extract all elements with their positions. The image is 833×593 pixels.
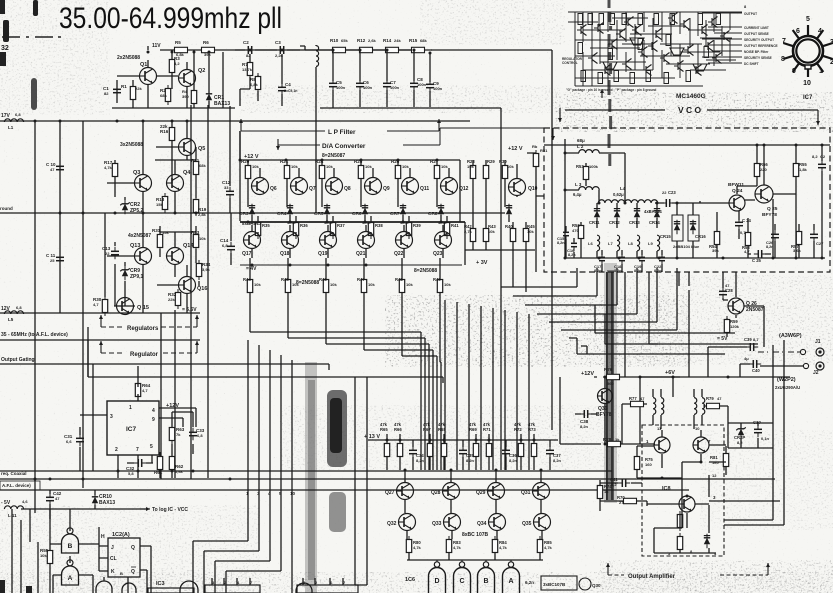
resistor R42: [470, 225, 475, 245]
svg-text:R16: R16: [160, 129, 169, 134]
transistor IC8a: [654, 437, 670, 453]
wire divider bus 471: [0, 470, 612, 472]
wire DA arrow right: [551, 128, 555, 140]
svg-text:8xBC 107B: 8xBC 107B: [462, 532, 489, 538]
svg-text:4,7k: 4,7k: [453, 545, 462, 550]
capacitor C11: [56, 253, 64, 265]
wire staircase varactor feed 4: [537, 268, 637, 314]
capacitor C33: [189, 428, 197, 440]
wire gate wiring: [50, 509, 99, 593]
svg-text:6,8: 6,8: [197, 433, 203, 438]
wire AFL line: [0, 489, 689, 491]
svg-text:Q34: Q34: [477, 521, 487, 527]
resistor R49: [437, 276, 442, 296]
wire column Q12: [437, 160, 449, 307]
capacitor C15: [563, 228, 569, 240]
resistor R81: [723, 450, 728, 470]
resistor R20: [245, 162, 250, 182]
svg-text:10k: 10k: [291, 164, 298, 169]
svg-text:Q18: Q18: [280, 251, 290, 257]
svg-text:BFY78: BFY78: [596, 412, 612, 418]
resistor R16: [169, 124, 174, 144]
svg-text:6,4μ: 6,4μ: [573, 192, 582, 197]
wire BAX13 bus: [240, 221, 465, 223]
transistor Q22: [396, 232, 413, 249]
resistor R68: [441, 440, 446, 460]
svg-text:35.00-64.999mhz pll: 35.00-64.999mhz pll: [59, 2, 282, 35]
svg-text:6,8: 6,8: [222, 243, 228, 248]
svg-text:B: B: [120, 571, 123, 576]
svg-text:Output Gating: Output Gating: [1, 357, 35, 363]
capacitor C26: [771, 230, 779, 242]
wire Q3/Q4/Q5 interconnect: [107, 121, 196, 213]
svg-text:8=2N5087: 8=2N5087: [322, 153, 345, 159]
resistor R75: [634, 453, 639, 473]
logic 3xBC107B box: [541, 576, 577, 590]
resistor R34: [196, 260, 201, 280]
svg-text:6,8k: 6,8k: [250, 82, 259, 87]
wire top coupling line: [235, 49, 432, 51]
wire divider feed 2: [204, 490, 259, 593]
svg-text:Output Amplifier: Output Amplifier: [628, 574, 676, 580]
resistor R65: [384, 440, 389, 460]
inductor T2b: [661, 398, 664, 415]
wire verticals from preamp: [161, 105, 208, 479]
capacitor C40: [749, 360, 761, 368]
resistor R55: [47, 547, 52, 567]
svg-text:L1: L1: [8, 125, 14, 130]
logic IC5 box: [297, 585, 358, 593]
resistor R69: [473, 440, 478, 460]
wire 17V rail: [0, 120, 470, 122]
capacitor C43: [754, 425, 762, 437]
svg-text:10k: 10k: [402, 164, 409, 169]
svg-text:R67: R67: [423, 427, 431, 432]
wire L4 to C23: [655, 201, 700, 203]
svg-text:NOISE BP. Filter: NOISE BP. Filter: [744, 50, 769, 54]
svg-text:10: 10: [803, 80, 811, 87]
wire DA output 2: [288, 307, 425, 470]
svg-text:= 6,5V: = 6,5V: [182, 307, 197, 313]
logic gate B: [478, 560, 495, 593]
resistor R48: [399, 276, 404, 296]
inductor L2: [579, 150, 599, 153]
svg-text:22k: 22k: [168, 297, 175, 302]
wire IC7 surroundings: [80, 364, 193, 478]
svg-text:8: 8: [781, 56, 785, 63]
transistor Q35: [534, 514, 551, 531]
node MC1460G pin labels: [562, 12, 778, 92]
capacitor C32: [134, 459, 146, 467]
resistor R25: [358, 162, 363, 182]
svg-text:C28: C28: [725, 288, 733, 293]
svg-text:C27: C27: [816, 241, 824, 246]
svg-text:1C2(A): 1C2(A): [112, 532, 130, 538]
resistor R33: [193, 231, 198, 251]
svg-text:BAX13: BAX13: [99, 500, 115, 506]
svg-text:25: 25: [50, 258, 55, 263]
inductor L9: [657, 235, 660, 251]
svg-text:C39: C39: [744, 337, 752, 342]
svg-text:82: 82: [104, 91, 109, 96]
wire Q26 interconnect: [723, 199, 773, 347]
svg-text:V C O: V C O: [678, 105, 702, 115]
zener CR9: [120, 266, 129, 280]
capacitor C12: [226, 187, 234, 199]
wire R78 to IC8: [621, 443, 655, 445]
svg-text:7k: 7k: [176, 432, 181, 437]
transistor Q8: [326, 178, 343, 195]
diode CR18: [704, 534, 710, 548]
svg-text:R51: R51: [540, 148, 548, 153]
svg-text:CL: CL: [110, 556, 117, 562]
svg-text:+12 V: +12 V: [508, 146, 523, 152]
wire DA output 6: [440, 307, 441, 470]
wire CR11 stubs: [596, 203, 598, 228]
wire R52/C15 stubs: [566, 222, 581, 258]
svg-text:R41: R41: [451, 223, 459, 228]
svg-text:CONTROL: CONTROL: [562, 61, 578, 65]
resistor R28: [470, 162, 475, 182]
transistor Q19: [320, 232, 337, 249]
svg-text:(W2P2): (W2P2): [777, 377, 796, 383]
logic gate A: [62, 560, 79, 585]
svg-text:H: H: [101, 534, 105, 540]
transistor Q32: [399, 514, 416, 531]
wire VCO to staircase: [679, 272, 689, 286]
svg-text:Q23: Q23: [433, 251, 443, 257]
svg-text:24k: 24k: [394, 38, 401, 43]
svg-text:+ 3V: + 3V: [476, 260, 488, 266]
wire: [195, 315, 199, 327]
resistor R27: [434, 162, 439, 182]
capacitor C10: [56, 162, 64, 174]
svg-text:1: 1: [819, 68, 823, 75]
svg-text:2xUG290A/U: 2xUG290A/U: [775, 385, 800, 390]
varactor diode CR7: [400, 204, 406, 218]
wire IC7 pin stubs: [98, 394, 196, 478]
transistor Q1: [140, 68, 157, 85]
wire staircase varactor feed 2: [513, 268, 597, 296]
svg-text:22k: 22k: [135, 86, 142, 91]
inductor T3a: [694, 398, 697, 415]
svg-text:4,7k: 4,7k: [104, 165, 113, 170]
resistor R54: [714, 228, 719, 248]
svg-text:3x2N5088: 3x2N5088: [120, 142, 143, 148]
svg-text:Q35: Q35: [522, 521, 532, 527]
svg-text:Q: Q: [131, 545, 135, 551]
svg-text:10k: 10k: [252, 164, 259, 169]
wire vertical bus x83: [82, 121, 84, 488]
resistor R58: [745, 229, 750, 249]
wire IC8 interconnect: [637, 430, 780, 553]
svg-text:390: 390: [182, 94, 189, 99]
wire divider bus 2: [456, 302, 458, 470]
transistor Q5: [179, 139, 196, 156]
inductor T3b: [702, 398, 705, 415]
transistor Q25: [755, 185, 773, 203]
resistor R1: [130, 83, 135, 103]
svg-text:Q5: Q5: [198, 146, 205, 152]
svg-text:4,7: 4,7: [93, 302, 99, 307]
svg-text:CR16: CR16: [695, 234, 706, 239]
transistor Q17: [244, 232, 261, 249]
svg-text:Q4: Q4: [183, 170, 191, 176]
connector IC7 socket dial: [783, 25, 832, 77]
svg-text:2,8k: 2,8k: [198, 212, 207, 217]
wire +12V divider bus: [368, 439, 558, 441]
wire divider bus 8: [528, 314, 530, 470]
svg-text:To log IC - VCC: To log IC - VCC: [152, 507, 188, 513]
wire DA frame: [230, 106, 465, 265]
resistor R14: [382, 47, 402, 52]
svg-text:CR5: CR5: [314, 211, 324, 217]
svg-text:B: B: [483, 578, 488, 585]
transistor Q28: [443, 483, 460, 500]
wire: [99, 341, 103, 353]
svg-text:MC1460G: MC1460G: [676, 93, 706, 100]
svg-text:8,2n: 8,2n: [766, 245, 774, 249]
svg-text:10k: 10k: [507, 164, 514, 169]
transistor Q21: [358, 232, 375, 249]
wire RC ladder bus: [300, 46, 552, 430]
svg-text:10k: 10k: [406, 282, 413, 287]
svg-text:0,62μ: 0,62μ: [613, 192, 624, 197]
wire -4V bus: [240, 264, 462, 266]
logic gate C: [454, 560, 471, 593]
wire divider stage Q28: [430, 434, 463, 560]
node LP Filter label: [241, 130, 439, 132]
inductor L5: [4, 311, 23, 314]
svg-text:R39: R39: [413, 223, 421, 228]
svg-text:8,2n: 8,2n: [553, 458, 562, 463]
svg-text:10k: 10k: [254, 282, 261, 287]
svg-text:L7: L7: [608, 241, 613, 246]
resistor R43: [483, 225, 488, 245]
svg-text:1C6: 1C6: [405, 577, 415, 583]
wire R28/R42 column: [465, 160, 535, 292]
svg-text:J2: J2: [813, 370, 819, 376]
svg-text:CR11: CR11: [589, 220, 600, 225]
wire VCO arrow right: [816, 110, 820, 125]
capacitor C23: [662, 199, 674, 207]
svg-text:4: 4: [818, 28, 822, 35]
svg-text:- 5V: - 5V: [1, 500, 11, 506]
wire 11V bus: [160, 49, 300, 51]
svg-text:10k: 10k: [40, 553, 47, 558]
svg-text:J1: J1: [815, 339, 821, 345]
svg-text:2xC5,1n: 2xC5,1n: [284, 89, 297, 93]
capacitor C7: [383, 79, 391, 91]
inductor L4: [598, 200, 657, 203]
resistor R70: [620, 498, 640, 503]
svg-text:3xBC107B: 3xBC107B: [543, 582, 566, 587]
svg-text:100n: 100n: [433, 86, 443, 91]
wire L7 stubs: [617, 250, 622, 272]
svg-text:10k: 10k: [368, 282, 375, 287]
wire regulator feed lines: [88, 340, 443, 383]
wire vertical bus x60: [59, 121, 61, 313]
svg-text:R37: R37: [337, 223, 345, 228]
wire VCO bias stubs: [717, 212, 814, 258]
wire Q24/Q25 interconnect: [700, 145, 822, 258]
svg-text:47: 47: [50, 167, 55, 172]
transistor Q14: [167, 248, 184, 265]
transistor Q18: [282, 232, 299, 249]
svg-text:+ 13 V: + 13 V: [364, 434, 380, 440]
resistor R39: [406, 219, 411, 239]
svg-text:CR15: CR15: [660, 234, 671, 239]
wire IC4 pins: [212, 578, 250, 585]
resistor R40: [510, 225, 515, 245]
svg-text:10: 10: [290, 491, 296, 496]
svg-text:+6V: +6V: [665, 370, 675, 376]
wire DA output 4: [364, 307, 433, 470]
transistor Q24: [729, 195, 745, 211]
wire column Q11: [398, 160, 410, 307]
svg-text:4,7k: 4,7k: [544, 545, 553, 550]
wire: [766, 563, 770, 575]
resistor R41: [444, 219, 449, 239]
svg-text:68k: 68k: [420, 38, 427, 43]
svg-text:BAX13: BAX13: [214, 101, 230, 107]
svg-text:17V: 17V: [1, 113, 11, 119]
varactor diode CR8: [438, 204, 444, 218]
capacitor C9: [426, 80, 434, 92]
transistor Q7: [291, 178, 308, 195]
svg-text:6,8: 6,8: [15, 112, 21, 117]
svg-text:Q32: Q32: [387, 521, 397, 527]
resistor R82: [677, 511, 682, 531]
capacitor C31: [76, 434, 84, 446]
svg-text:8,2n: 8,2n: [580, 424, 589, 429]
svg-text:IC3: IC3: [156, 581, 165, 587]
resistor R57: [796, 228, 801, 248]
svg-text:Regulator: Regulator: [130, 352, 159, 358]
wire L8 stubs: [637, 250, 642, 272]
svg-text:L5: L5: [8, 317, 14, 322]
svg-text:47: 47: [55, 496, 60, 501]
logic IC4 box: [205, 585, 260, 593]
inductor L6: [597, 235, 600, 251]
svg-text:OUTPUT REFERENCE: OUTPUT REFERENCE: [744, 44, 778, 48]
svg-text:Q27: Q27: [385, 490, 395, 496]
varactor diode CR4: [287, 204, 293, 218]
svg-text:R69: R69: [469, 427, 477, 432]
transistor Q33: [444, 514, 461, 531]
svg-text:R12: R12: [357, 38, 366, 43]
wire C2/C3 stubs: [240, 54, 282, 106]
wire R51 feed: [527, 153, 544, 272]
resistor R45b: [523, 225, 528, 245]
wire staircase to output amp: [569, 305, 758, 354]
svg-text:C23: C23: [668, 190, 676, 195]
svg-text:R15: R15: [409, 38, 418, 43]
resistor R53: [583, 163, 588, 183]
resistor R3: [169, 56, 174, 76]
amplifier IC8 dashed box: [642, 425, 724, 556]
svg-text:6: 6: [796, 28, 800, 35]
svg-text:15k: 15k: [156, 202, 163, 207]
resistor R79: [703, 403, 723, 408]
svg-text:100n: 100n: [336, 85, 346, 90]
svg-text:R36: R36: [300, 223, 308, 228]
wire CR17/C43: [728, 422, 773, 448]
node D/A Converter label: [278, 128, 544, 145]
resistor R44: [247, 276, 252, 296]
wire VCO top rail: [544, 144, 830, 146]
svg-text:R65: R65: [380, 427, 388, 432]
svg-text:R1: R1: [121, 84, 127, 89]
wire staircase varactor feed 3: [525, 268, 617, 305]
wire divider feed 1: [193, 490, 248, 593]
svg-text:Q19: Q19: [318, 251, 328, 257]
wire staircase node: [500, 286, 502, 288]
wire L9 stubs: [657, 250, 662, 272]
svg-text:9: 9: [152, 417, 155, 423]
wire transformer stubs: [622, 389, 728, 444]
wire staircase varactor feed 5: [549, 268, 657, 322]
svg-text:8,2n: 8,2n: [568, 253, 576, 257]
svg-text:4,6: 4,6: [22, 499, 28, 504]
svg-text:8,2n: 8,2n: [634, 269, 642, 273]
transistor Q16: [179, 277, 196, 294]
capacitor C34: [409, 446, 417, 458]
wire divider bus 4: [480, 306, 482, 470]
wire vertical bus x35: [34, 121, 36, 513]
svg-text:33: 33: [224, 185, 229, 190]
resistor R36: [293, 219, 298, 239]
svg-text:C2: C2: [243, 40, 249, 45]
wire Q36 interconnect: [560, 377, 680, 444]
wire: [195, 341, 199, 353]
wire divider bus 1: [444, 300, 446, 470]
svg-text:R53: R53: [576, 164, 584, 169]
svg-text:CURRENT LIMIT: CURRENT LIMIT: [744, 26, 769, 30]
resistor R4: [191, 87, 196, 107]
svg-text:CR13: CR13: [629, 220, 640, 225]
wire L2/L3 feeds: [565, 139, 625, 258]
varactor CR16: [688, 215, 699, 241]
svg-text:7: 7: [782, 38, 786, 45]
svg-text:100n: 100n: [417, 82, 427, 87]
wire feed risers: [248, 340, 292, 490]
wire preamp interconnect: [112, 50, 235, 108]
wire column Q8: [322, 160, 334, 307]
resistor R80: [406, 536, 411, 556]
resistor R35: [255, 219, 260, 239]
svg-text:Q2: Q2: [198, 68, 205, 74]
resistor R76: [603, 374, 623, 379]
diode CR10 BAX13: [92, 493, 98, 507]
wire divider bus 7: [516, 312, 518, 470]
resistor R73: [531, 440, 536, 460]
capacitor C14: [227, 242, 235, 254]
capacitor C29: [818, 160, 826, 172]
svg-text:10k: 10k: [444, 282, 451, 287]
wire R74 stubs: [599, 480, 601, 511]
wire column Q9: [361, 160, 373, 307]
svg-text:4,7: 4,7: [744, 249, 750, 254]
svg-text:5,8: 5,8: [128, 471, 134, 476]
svg-text:100k: 100k: [589, 164, 599, 169]
svg-text:Q3: Q3: [133, 170, 140, 176]
transistor Q12: [441, 178, 458, 195]
svg-text:9: 9: [792, 68, 796, 75]
svg-text:(A3W6P): (A3W6P): [779, 333, 802, 339]
svg-text:Q8: Q8: [344, 186, 351, 192]
svg-text:ZP9,1: ZP9,1: [130, 274, 144, 280]
